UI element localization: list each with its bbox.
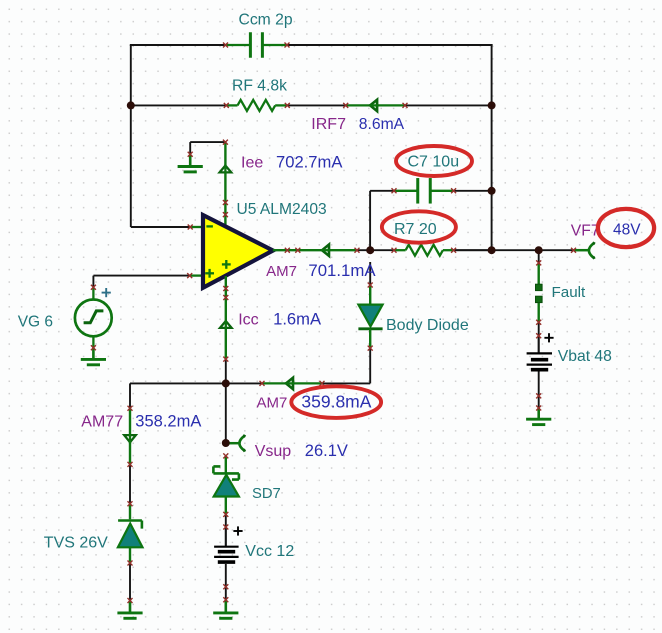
- svg-text:VG 6: VG 6: [18, 313, 53, 330]
- svg-text:SD7: SD7: [252, 486, 281, 502]
- svg-text:Icc: Icc: [238, 311, 258, 328]
- svg-text:Vbat 48: Vbat 48: [558, 348, 612, 365]
- svg-text:8.6mA: 8.6mA: [359, 116, 405, 133]
- svg-text:358.2mA: 358.2mA: [135, 413, 201, 431]
- svg-text:AM7: AM7: [266, 263, 297, 280]
- svg-text:VF7: VF7: [571, 222, 600, 239]
- svg-text:IRF7: IRF7: [311, 116, 346, 133]
- svg-text:Iee: Iee: [241, 155, 263, 172]
- svg-text:U5 ALM2403: U5 ALM2403: [237, 201, 327, 218]
- svg-text:1.6mA: 1.6mA: [273, 309, 322, 328]
- svg-text:Fault: Fault: [552, 284, 587, 301]
- svg-text:26.1V: 26.1V: [305, 442, 348, 460]
- svg-text:Vcc 12: Vcc 12: [245, 543, 294, 560]
- svg-text:Body Diode: Body Diode: [386, 317, 469, 334]
- svg-text:R7 20: R7 20: [394, 221, 437, 238]
- svg-text:Ccm 2p: Ccm 2p: [239, 11, 293, 28]
- svg-text:48V: 48V: [613, 222, 641, 239]
- svg-text:702.7mA: 702.7mA: [276, 153, 343, 172]
- svg-text:AM77: AM77: [81, 414, 123, 431]
- svg-text:Vsup: Vsup: [255, 443, 292, 460]
- svg-text:TVS 26V: TVS 26V: [44, 535, 108, 552]
- svg-text:701.1mA: 701.1mA: [308, 261, 376, 280]
- svg-text:C7 10u: C7 10u: [408, 154, 460, 171]
- svg-text:RF 4.8k: RF 4.8k: [232, 77, 287, 94]
- svg-text:359.8mA: 359.8mA: [301, 392, 371, 412]
- svg-text:AM7: AM7: [257, 395, 288, 412]
